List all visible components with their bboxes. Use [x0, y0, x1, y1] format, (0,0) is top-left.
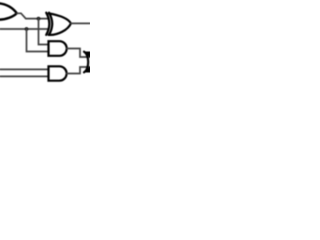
node J2 (junction on W2) [25, 27, 29, 31]
node J1 (junction on W1) [37, 17, 41, 21]
wire W7 (input B to AND U4) [0, 75, 49, 77]
wire W1 (G1 output to XOR U2 top input) [17, 13, 48, 18]
wire W5 (U4 output to OR U5 bottom input) [67, 67, 91, 74]
wire W3 (sum output of U2) [71, 22, 90, 24]
xor gate U2 [46, 13, 71, 35]
wire W4 (U3 output to OR U5 top input) [67, 49, 91, 58]
and gate U3 [49, 41, 67, 56]
wire W2 (input C, to XOR U2 bottom input) [0, 28, 48, 30]
and gate U4 [49, 66, 67, 80]
wire W1b (J1 branch down to AND U3 top input) [39, 19, 49, 45]
gate G1 (clipped XOR at top-left) [0, 3, 17, 19]
wire W2b (J2 branch down to AND U3 bottom input) [27, 29, 49, 52]
wire W6 (input A to AND U4) [0, 68, 49, 70]
or gate U5 (clipped at right edge) [84, 52, 90, 73]
